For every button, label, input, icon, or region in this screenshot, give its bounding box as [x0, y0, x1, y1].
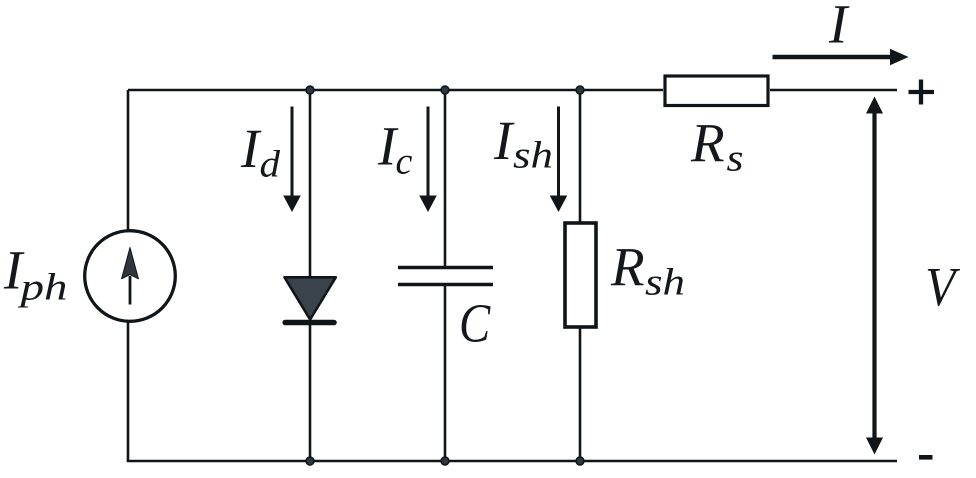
svg-text:sh: sh	[513, 135, 553, 177]
svg-text:R: R	[610, 237, 645, 298]
svg-text:I: I	[493, 110, 515, 171]
svg-text:d: d	[260, 144, 282, 186]
svg-text:sh: sh	[645, 262, 685, 304]
svg-text:ph: ph	[17, 267, 68, 309]
svg-text:s: s	[727, 138, 744, 180]
svg-text:V: V	[925, 257, 960, 318]
svg-text:c: c	[396, 141, 413, 183]
svg-text:R: R	[690, 112, 725, 173]
svg-text:I: I	[828, 0, 850, 55]
svg-text:C: C	[459, 294, 491, 354]
